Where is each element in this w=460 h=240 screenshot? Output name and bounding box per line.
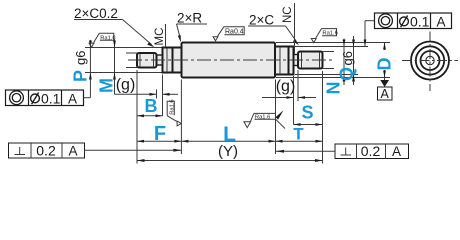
label N (blue, rotated) [324, 82, 344, 95]
right collar (journal Q g6) [275, 47, 294, 75]
dimension P vertical line [89, 40, 92, 98]
svg-text:2×R: 2×R [177, 11, 202, 26]
svg-text:D: D [375, 58, 395, 71]
svg-text:(Y): (Y) [218, 143, 238, 160]
svg-text:M: M [97, 78, 117, 93]
svg-text:Ra1.6: Ra1.6 [169, 99, 175, 114]
extension line stub-left face (x=137) [136, 70, 138, 164]
svg-text:S: S [301, 103, 313, 123]
right threaded stub N [298, 52, 323, 69]
label (g) left [116, 77, 136, 94]
dimension L [181, 140, 275, 143]
surface roughness Ra1.6 right [311, 29, 338, 43]
surface roughness Ra0.4 on body [213, 27, 244, 41]
dimension (g) right: tails and arrows at neck [262, 96, 316, 99]
label Q (blue, rotated) [337, 67, 357, 81]
dimension F [137, 140, 181, 143]
svg-text:g6: g6 [73, 51, 88, 65]
label P (blue, rotated) [71, 70, 91, 82]
dimension (Y) line [137, 159, 323, 162]
end view crosshair vertical [429, 32, 431, 92]
left threaded stub M [137, 53, 157, 68]
dimension N vertical line [343, 39, 346, 86]
svg-text:2×C0.2: 2×C0.2 [74, 6, 118, 21]
extension line collar-left face (x=162.5) [162, 75, 164, 117]
leader from top-right frame down to Q extension [364, 21, 375, 47]
extension line P bottom (collar bottom extended left) [85, 72, 163, 74]
svg-text:0.2: 0.2 [36, 142, 56, 158]
surface roughness Ra1.6 with leader (bottom right) [244, 110, 285, 128]
svg-text:F: F [154, 123, 166, 145]
label 2xR with leader [177, 11, 208, 43]
label B (blue) [145, 96, 158, 116]
svg-text:g6: g6 [340, 51, 355, 65]
svg-text:0.1: 0.1 [41, 90, 61, 106]
dimension M vertical line [113, 40, 116, 95]
svg-text:T: T [293, 125, 304, 144]
svg-text:Ra1.6: Ra1.6 [322, 31, 337, 37]
label g6 (right, rotated) [340, 51, 355, 65]
datum A triangle and box (right) [378, 78, 393, 102]
dimension D vertical line [383, 43, 386, 78]
extension line Q top (right collar top extended right) [295, 46, 368, 48]
surface roughness Ra1.6 left [89, 33, 116, 47]
svg-text:MC: MC [154, 28, 166, 46]
label NC (rotated) with line [282, 3, 295, 55]
centerline of shaft [128, 59, 334, 61]
svg-text:Ra0.4: Ra0.4 [225, 29, 244, 36]
svg-text:B: B [145, 96, 158, 116]
centerline overlay on shaft [128, 59, 334, 61]
label F (blue) [154, 123, 166, 145]
label D (blue, rotated) [375, 58, 395, 71]
extension line right collar internal step (x=288.5) [293, 76, 295, 125]
extension line D top (body top extended right) [276, 42, 390, 44]
label 2xC with leader [248, 13, 299, 46]
dimension (g) left: tails and arrows at neck [115, 90, 179, 99]
svg-text:P: P [71, 70, 91, 82]
end view circles [411, 42, 449, 80]
extension line body-left face (x=181.4) [180, 80, 182, 155]
extension line M bottom (stub bottom extended left) [126, 67, 137, 69]
dimension B [137, 114, 163, 117]
label 2xC0.2 with leader [74, 6, 155, 47]
label (Y) [218, 143, 238, 160]
svg-text:A: A [68, 143, 77, 158]
svg-text:A: A [436, 14, 445, 29]
feature control frame left (concentricity) [6, 90, 91, 106]
feature control frame bottom right (perpendicularity) [335, 143, 409, 159]
label M (blue, rotated) [97, 78, 117, 93]
svg-text:0.1: 0.1 [410, 13, 430, 29]
label L (blue) [223, 123, 236, 146]
svg-text:A: A [392, 144, 401, 159]
feature control frame bottom left (perpendicularity) [9, 142, 85, 158]
label T (blue) [293, 125, 304, 144]
extension line Q bottom (right collar bottom extended right) [295, 74, 358, 76]
dimension Q vertical line [352, 36, 355, 85]
main body D [182, 43, 276, 78]
dimension T [276, 140, 323, 143]
feature control frame top right (concentricity) [375, 13, 452, 29]
svg-text:NC: NC [282, 6, 294, 23]
label g6 (left, rotated) [73, 51, 88, 65]
right neck (thread undercut) [294, 55, 299, 66]
surface roughness Ra1.6 rotated (bottom, at body-left extension) [167, 99, 181, 126]
label MC (rotated) with line [154, 24, 166, 48]
extension line right stub-right face (x=322.5) [322, 71, 324, 164]
extension line M top (stub top extended left) [126, 52, 137, 54]
label S (blue) [301, 103, 313, 123]
end view crosshair horizontal [402, 60, 458, 62]
svg-text:Q: Q [337, 67, 357, 81]
left neck (thread undercut) [157, 55, 163, 65]
extension line N top (right stub top extended right) [323, 51, 335, 53]
extension line body-right face (x=275.5) [275, 80, 277, 155]
svg-text:Ra1.6: Ra1.6 [255, 115, 270, 121]
svg-text:(g): (g) [116, 77, 136, 94]
svg-text:A: A [381, 87, 390, 101]
svg-text:2×C: 2×C [249, 13, 274, 28]
svg-text:Ra1.6: Ra1.6 [100, 35, 115, 41]
extension line D bottom (body bottom extended right) [276, 77, 390, 79]
extension line P top (collar top extended left) [85, 47, 163, 49]
dimension S [294, 123, 323, 126]
extension line N bottom (right stub bottom extended right) [323, 68, 335, 70]
left collar (journal P g6) [163, 48, 182, 73]
svg-text:A: A [68, 91, 77, 106]
svg-text:N: N [324, 82, 344, 95]
svg-text:(g): (g) [276, 78, 296, 95]
leader line bottom connecting frames (with gap for (Y)) [85, 149, 336, 153]
label (g) right [276, 78, 296, 95]
svg-text:0.2: 0.2 [361, 143, 381, 159]
extension line right stub-left face (x=300.5) [297, 70, 299, 101]
